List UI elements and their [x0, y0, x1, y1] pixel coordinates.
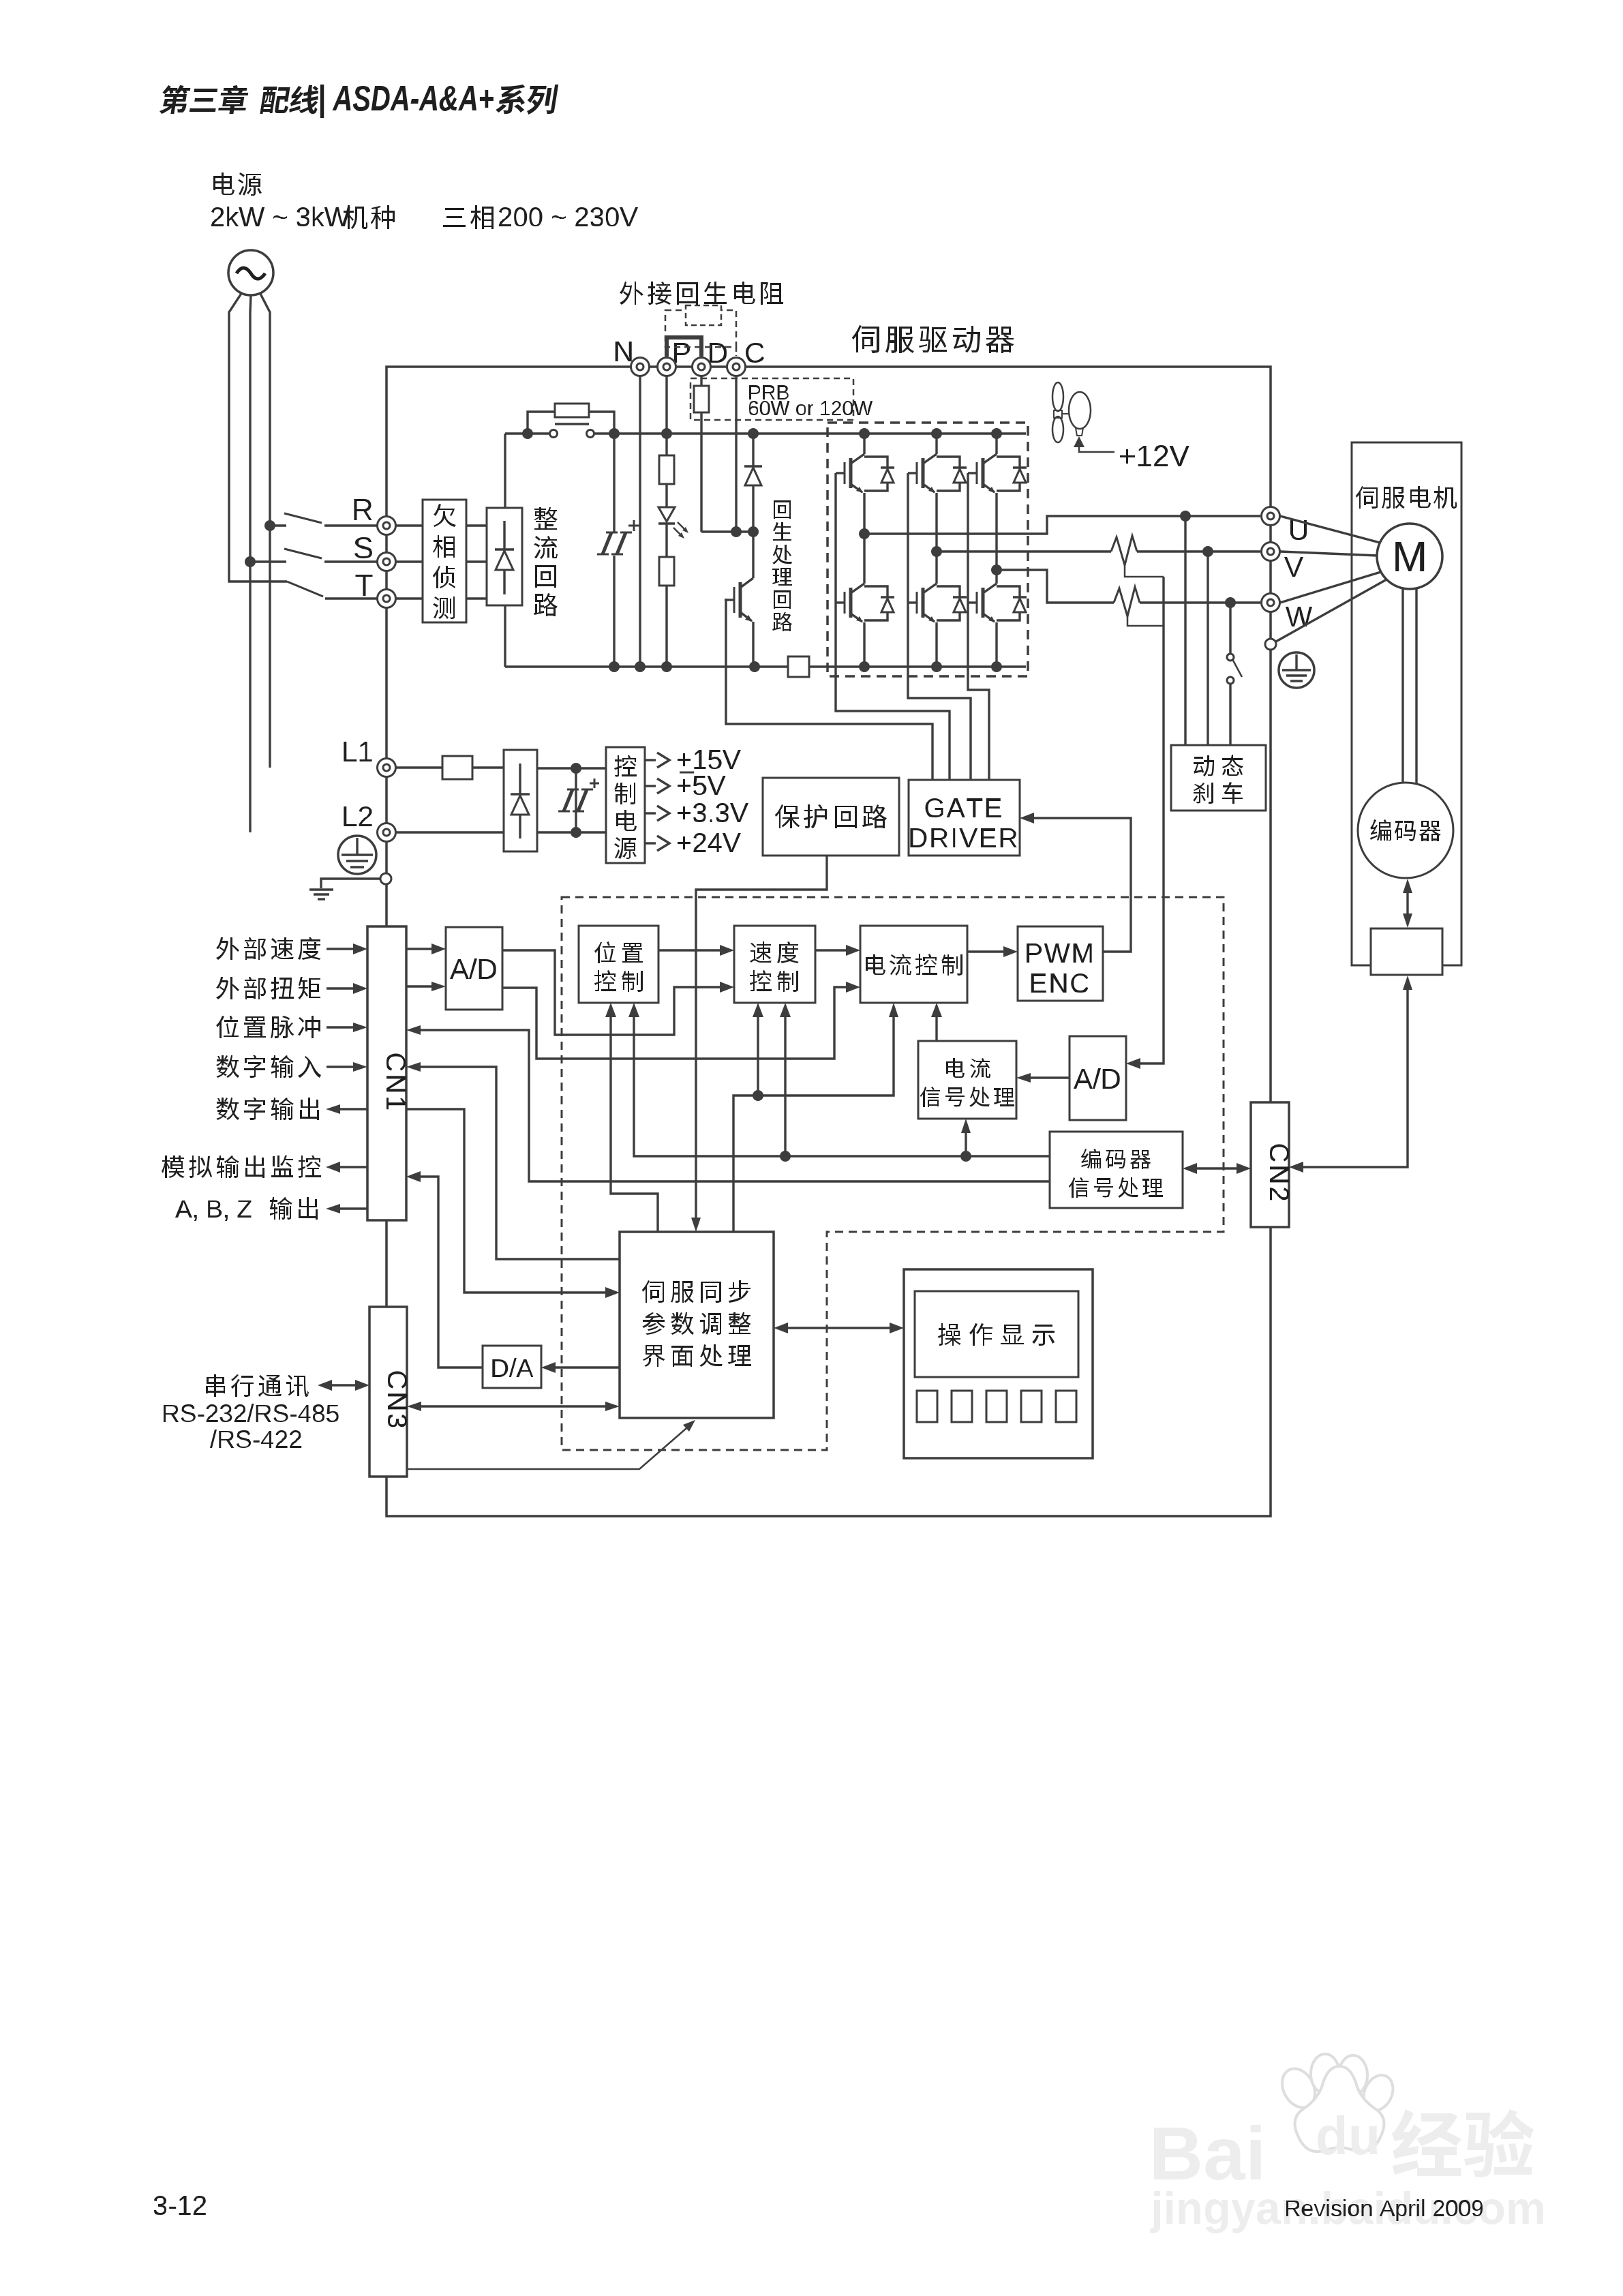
control rectifier box: [504, 750, 537, 851]
label 60W or 120W: [749, 401, 873, 415]
label 回生处理回路: [772, 500, 792, 631]
encoder signal processing box 编码器信号处理: [1050, 1132, 1183, 1208]
label 模拟输出监控: [162, 1155, 321, 1178]
wire motor to encoder: [1401, 589, 1404, 783]
wire rectifier to top bus: [504, 434, 506, 508]
wire position to speed: [658, 949, 722, 951]
wire CN1 to A/D input 2: [406, 985, 434, 987]
wire bottom DC bus: [505, 665, 788, 667]
wire motor W: [1280, 571, 1383, 603]
wire phase V output: [937, 550, 1111, 552]
serial comm double arrow: [329, 1384, 359, 1386]
label T: [356, 575, 373, 596]
terminal L2: [378, 824, 396, 842]
terminal V: [1262, 543, 1280, 561]
terminal R: [378, 517, 396, 535]
protective earth circle symbol: [338, 836, 376, 874]
wire phase W output: [997, 570, 1114, 603]
wire interface to position control: [611, 1015, 658, 1232]
gate driver wire phase 3: [968, 473, 989, 779]
label L2: [344, 806, 371, 826]
switch blade phase T: [287, 581, 323, 596]
wire motor earth: [1276, 579, 1388, 641]
earth terminal open circle: [380, 873, 391, 884]
wire A/D out to speed control: [502, 950, 722, 1035]
label 电源 (power supply): [213, 172, 262, 196]
external regen resistor dashed resistor: [686, 305, 721, 325]
cooling fan: [1052, 382, 1063, 411]
motor circle M: [1377, 524, 1442, 589]
terminal T: [378, 590, 396, 608]
IGBT lower leg phase 2: [931, 546, 942, 557]
wire encoder pulses to CN1: [406, 1025, 421, 1035]
control filter capacitor: [575, 768, 577, 832]
label C: [746, 343, 764, 363]
display key 3: [986, 1391, 1007, 1422]
gate driver box: [909, 780, 1020, 856]
terminal S: [378, 553, 396, 571]
page number 3-12: [154, 2196, 206, 2215]
current signal processing box 电流信号处理: [918, 1041, 1016, 1119]
wire motor U: [1280, 516, 1382, 543]
gate driver wire phase 1: [836, 473, 950, 779]
wire AC source right phase down (feeds R and L1): [260, 292, 270, 768]
AC source circle: [228, 250, 273, 295]
wire interface to D/A: [553, 1366, 620, 1368]
wire D line: [700, 376, 702, 386]
LED indicator: [665, 484, 667, 507]
wire interface to display double arrow: [786, 1327, 892, 1329]
wire rectifier to control power -: [537, 831, 606, 833]
IGBT lower leg phase 3: [991, 564, 1002, 575]
connector CN2: [1251, 1102, 1289, 1227]
wire W to brake switch: [1229, 603, 1231, 653]
regen diode: [752, 434, 754, 466]
label A,B,Z 输出: [175, 1200, 252, 1221]
A/D converter box: [446, 927, 502, 1010]
control section dashed boundary: [562, 897, 1224, 1450]
label PRB: [749, 385, 789, 399]
shunt resistor on bottom bus: [788, 656, 809, 677]
wire D/A to CN1 monitor: [406, 1171, 421, 1182]
baidu watermark: [1154, 2125, 1261, 2180]
wire U to brake: [1184, 516, 1186, 745]
wire A/D to current signal processing: [1029, 1076, 1070, 1078]
PWM ENC box: [1018, 926, 1103, 1001]
display key 2: [952, 1391, 972, 1422]
rectifier bridge box 整流回路: [487, 508, 522, 605]
wire detect to rectifier S: [466, 560, 487, 562]
bleeder resistor lower: [665, 524, 667, 557]
jumper P-D thick bracket: [667, 337, 701, 357]
wire phase T to detect box: [395, 597, 423, 599]
label R: [354, 499, 372, 520]
label 位置脉冲: [216, 1016, 320, 1038]
label 外部速度: [216, 937, 321, 960]
label 数字输出: [216, 1098, 319, 1120]
IGBT lower leg phase 1: [859, 528, 870, 539]
label 数字输入: [216, 1055, 321, 1078]
control power box 控制电源: [606, 747, 645, 863]
operator display unit 操作显示: [904, 1269, 1093, 1458]
page title 第三章 配线 | ASDA-A&A+系列: [159, 85, 249, 114]
label L1: [344, 742, 371, 761]
servo drive enclosure box: [386, 367, 1271, 1516]
wire regen gate route: [725, 600, 932, 779]
wire speed to current: [815, 949, 848, 951]
revision note: [1286, 2199, 1483, 2221]
wire C line: [735, 376, 737, 532]
wire AC source mid phase down (feeds S and L2): [250, 295, 251, 832]
regen transistor Q regen: [752, 532, 754, 578]
wire P line: [665, 376, 667, 434]
switch blade phase S: [245, 556, 256, 567]
wire L2 to control rectifier: [395, 831, 504, 833]
label V: [1284, 557, 1303, 577]
soft start relay contacts: [550, 430, 558, 438]
wire earth terminal to ground: [321, 879, 380, 888]
label RS-232/RS-485: [164, 1404, 339, 1422]
terminal P: [658, 358, 676, 376]
inverter dashed box: [828, 423, 1028, 676]
motor earth circle symbol: [1279, 652, 1314, 688]
display key 1: [917, 1391, 937, 1422]
label 整流回路: [534, 507, 558, 616]
label 外接回生电阻 external regen resistor: [620, 282, 783, 305]
arrow 数字输出 out of CN1: [339, 1108, 367, 1110]
control output +15V: [645, 759, 656, 761]
current sensor V: [1111, 536, 1137, 565]
wire phase S to detect box: [395, 560, 423, 562]
encoder double arrow: [1406, 888, 1408, 918]
D/A converter box: [483, 1346, 541, 1388]
wire N line: [639, 376, 641, 667]
speed control box 速度控制: [734, 926, 815, 1003]
wire A/D out to current control: [502, 987, 848, 1059]
display key 5: [1056, 1391, 1076, 1422]
arrow 位置脉冲 into CN1: [327, 1026, 356, 1028]
switch blade phase R: [264, 520, 275, 531]
wire D-C junction: [701, 530, 753, 532]
fuse on L1: [395, 766, 442, 768]
display key 4: [1021, 1391, 1042, 1422]
label S: [354, 537, 372, 558]
terminal D: [693, 358, 711, 376]
wire current to PWM: [967, 950, 1005, 952]
current control box 电流控制: [860, 926, 967, 1003]
wire CN3 diagonal to interface: [407, 1424, 691, 1469]
servo motor box 伺服电机: [1352, 442, 1461, 965]
servo sync parameter interface box 伺服同步参数调整界面处理: [620, 1232, 774, 1418]
wire AC source left phase to T switch: [229, 292, 287, 581]
terminal L1: [378, 759, 396, 777]
wire current sensors to A/D: [1138, 577, 1164, 1063]
gate driver wire phase 2: [908, 473, 971, 779]
wire V to brake: [1207, 552, 1209, 745]
wire top DC bus: [505, 432, 550, 434]
wire encoder speed feedback bus: [634, 1015, 1050, 1156]
A/D current converter box: [1070, 1036, 1126, 1120]
bleeder resistor upper: [665, 434, 667, 455]
protection circuit box 保护回路: [763, 778, 899, 856]
motor ground open circle: [1265, 639, 1276, 650]
external regen resistor dashed stubs: [666, 347, 668, 356]
label W: [1286, 607, 1312, 626]
wire phase U output: [864, 516, 1260, 534]
terminal W: [1262, 594, 1280, 612]
wire detect to rectifier R: [466, 524, 487, 526]
label /RS-422: [210, 1430, 301, 1448]
wire rectifier to bottom bus: [504, 605, 506, 667]
connector CN3: [369, 1307, 407, 1477]
wire phase R to detect box: [395, 524, 423, 526]
connector CN1: [367, 926, 406, 1220]
label 伺服驱动器 servo drive: [852, 325, 1014, 353]
encoder circle 编码器: [1358, 783, 1453, 878]
IGBT upper leg phase 2: [935, 434, 937, 454]
current sensor W: [1114, 587, 1140, 616]
terminal C: [727, 358, 746, 376]
IGBT upper leg phase 1: [863, 434, 865, 454]
wire fan +12V: [1079, 447, 1114, 452]
label D: [710, 343, 727, 363]
arrow 外部扭矩 into CN1: [327, 987, 356, 989]
wire interface to speed/current bus: [733, 1015, 894, 1232]
label P: [674, 343, 690, 363]
DC bus capacitor: [613, 434, 615, 532]
brake switch: [1227, 654, 1234, 661]
IGBT upper leg phase 3: [995, 434, 997, 454]
control output +3.3V: [645, 812, 656, 814]
arrow A,B,Z out of CN1: [339, 1207, 367, 1209]
PRB dashed box: [691, 378, 853, 420]
wire CN1 to A/D input 1: [406, 948, 434, 950]
label 外部扭矩: [216, 977, 320, 999]
encoder interface box: [1371, 928, 1442, 975]
wire detect to rectifier T: [466, 597, 487, 599]
label 串行通讯: [206, 1374, 309, 1397]
arrow 外部速度 into CN1: [327, 948, 356, 950]
label N: [616, 342, 632, 361]
wire rectifier to control power +: [537, 767, 606, 769]
label U: [1290, 520, 1307, 540]
arrow 模拟输出监控 out of CN1: [339, 1166, 367, 1168]
wire encoder processing to CN2: [1192, 1167, 1241, 1169]
wire protection to interface: [696, 856, 827, 1220]
terminal N: [631, 358, 650, 376]
terminal U: [1262, 507, 1280, 526]
label 三相200~230V: [443, 205, 494, 229]
CN3 to interface double arrow: [419, 1405, 609, 1407]
wire PWM to gate driver: [1032, 818, 1131, 952]
control output +5V: [645, 785, 656, 787]
position control box 位置控制: [579, 926, 658, 1003]
resistor on D line: [694, 386, 709, 412]
label +12V: [1120, 445, 1189, 466]
wire CN1 digital to interface: [406, 1109, 607, 1293]
ground symbol: [309, 888, 333, 890]
phase loss detection box 欠相侦测: [423, 500, 466, 622]
wire encoder feedback to CN2: [1301, 988, 1408, 1167]
wire digital to CN1: [406, 1062, 421, 1072]
control output +24V: [645, 842, 656, 844]
wire motor V: [1280, 552, 1378, 556]
soft start bypass resistor: [528, 412, 555, 434]
dynamic brake box 动态刹车: [1171, 745, 1266, 811]
label 2kW~3kW机种: [211, 207, 350, 226]
external regen resistor dashed box: [665, 310, 736, 347]
wire current signal to current control: [935, 1015, 937, 1041]
arrow 数字输入 into CN1: [327, 1066, 356, 1068]
